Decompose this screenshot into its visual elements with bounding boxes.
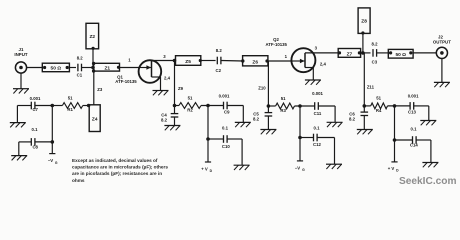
svg-text:C1: C1	[77, 72, 83, 77]
svg-text:51: 51	[281, 96, 286, 101]
wire C10 right to ground	[227, 139, 242, 165]
microstrip line Z6	[243, 56, 269, 66]
wire R3 to node K	[295, 105, 316, 107]
svg-text:0.001: 0.001	[219, 94, 230, 99]
svg-text:8.2: 8.2	[349, 116, 356, 121]
node J (R3 left junction)	[267, 104, 271, 108]
ground (Q1 source)	[153, 91, 169, 96]
wire C3 to R-out	[377, 52, 390, 54]
wire Q1 drain (pin 3) to node B	[152, 54, 176, 61]
resistor R1 51 ohms	[52, 95, 83, 112]
wire Z8 to node D	[362, 33, 364, 53]
svg-text:0.1: 0.1	[222, 125, 229, 130]
transistor Q1 ATF-10135 (GaAs FET)	[115, 60, 161, 84]
node C (Z6 left)	[241, 59, 244, 62]
capacitor C8 0.1uF	[31, 127, 38, 149]
svg-text:0.001: 0.001	[30, 96, 41, 101]
svg-text:Z10: Z10	[258, 86, 266, 91]
microstrip line Z9 (node B down)	[175, 61, 184, 106]
svg-text:Z3: Z3	[97, 87, 103, 92]
capacitor C7 0.001uF	[30, 96, 41, 112]
ground (C12)	[326, 164, 342, 169]
terminal -VG (Q1 gate supply)	[48, 142, 58, 165]
capacitor C6 8.2pF	[349, 106, 368, 130]
microstrip line Z3 (node A down to Z4)	[94, 68, 103, 105]
wire node K down to C12	[299, 106, 301, 138]
capacitor C11 0.001uF	[312, 91, 323, 116]
capacitor C13 0.001uF	[408, 94, 419, 115]
wire C13 right to ground	[414, 106, 429, 121]
svg-text:8.2: 8.2	[216, 48, 223, 53]
terminal -VG (Q2 gate supply)	[295, 138, 305, 172]
microstrip line Z7	[338, 49, 361, 58]
wire Q1 source (pins 2,4) down	[152, 76, 171, 91]
wire Z5 to C2	[201, 60, 216, 62]
capacitor C14 0.1uF	[395, 127, 419, 148]
svg-text:−V: −V	[295, 165, 301, 170]
svg-text:C3: C3	[372, 59, 378, 64]
resistor R4 51 ohms	[364, 96, 387, 113]
svg-text:Z6: Z6	[252, 60, 258, 66]
wire C7 to node E	[35, 105, 53, 107]
node B (Q1 drain junction)	[173, 59, 177, 63]
svg-text:8.2: 8.2	[77, 56, 84, 61]
wire Q2 drain (pin 3) to Z7	[305, 46, 339, 53]
transistor Q2 ATF-10135 (GaAs FET)	[265, 37, 315, 72]
microstrip stub Z2	[86, 23, 99, 50]
svg-text:51: 51	[188, 95, 193, 100]
wire Z6 to Q2 gate / pin 1	[268, 54, 292, 61]
svg-text:+ V: + V	[388, 166, 395, 171]
svg-text:51: 51	[68, 95, 73, 100]
svg-text:2,4: 2,4	[320, 61, 327, 66]
svg-text:51: 51	[376, 96, 381, 101]
ground (C9)	[235, 122, 251, 127]
ground (C7)	[10, 123, 26, 128]
svg-text:C2: C2	[216, 68, 222, 73]
capacitor C12 0.1uF	[300, 126, 322, 148]
microstrip line Z11 (node D down)	[364, 53, 374, 106]
label J1 wire / wire J1 to R-in	[27, 67, 43, 69]
svg-text:G: G	[302, 168, 305, 172]
wire Z2 to node A	[92, 49, 94, 68]
node F (C8 junction)	[51, 140, 55, 144]
svg-text:ATF-10135: ATF-10135	[115, 79, 137, 84]
node L (C12 junction)	[298, 136, 302, 140]
wire C9 right to ground	[227, 106, 243, 123]
svg-text:8.2: 8.2	[161, 117, 168, 122]
svg-text:Z4: Z4	[92, 117, 98, 123]
wire node E down to C8	[51, 106, 53, 142]
wire R4 to node N	[388, 105, 411, 107]
svg-text:Z8: Z8	[361, 19, 367, 25]
svg-text:Z9: Z9	[178, 86, 184, 91]
ground (below J1)	[13, 73, 29, 93]
node O (C14 junction)	[393, 138, 397, 142]
svg-text:INPUT: INPUT	[14, 52, 27, 57]
svg-text:0.1: 0.1	[314, 126, 321, 131]
resistor R3 51 ohms	[268, 96, 294, 113]
ground (C13)	[420, 121, 436, 126]
svg-text:0.1: 0.1	[411, 127, 418, 132]
terminal +VD (Q2 drain supply)	[388, 140, 399, 173]
microstrip stub Z4	[89, 105, 100, 132]
terminal +VD (Q1 drain supply)	[201, 139, 212, 173]
svg-text:8.2: 8.2	[372, 41, 379, 46]
svg-text:SeekIC.com: SeekIC.com	[399, 176, 457, 187]
node A (input junction)	[91, 66, 95, 70]
svg-text:OUTPUT: OUTPUT	[433, 39, 451, 44]
svg-text:C9: C9	[224, 110, 230, 115]
wire C1 to node A	[82, 67, 95, 69]
node I (C10 junction)	[206, 137, 210, 141]
capacitor C3 8.2pF	[372, 41, 379, 64]
node G (R2 left junction)	[173, 104, 177, 108]
wire C8 left to ground	[19, 142, 31, 156]
ground (C4)	[164, 126, 180, 131]
wire node N down to C14	[394, 106, 396, 140]
svg-text:Z5: Z5	[185, 59, 191, 65]
svg-text:0.001: 0.001	[408, 94, 419, 99]
wire C14 right to ground	[416, 140, 431, 163]
node E (R1 left junction)	[51, 104, 55, 108]
ground (below J2)	[434, 82, 450, 87]
connector J1 (input jack)	[14, 47, 27, 73]
svg-text:R1: R1	[67, 107, 73, 112]
ground (C5)	[260, 130, 276, 135]
svg-text:C8: C8	[32, 144, 38, 149]
svg-text:R4: R4	[376, 108, 382, 113]
ground (C8)	[11, 156, 27, 161]
wire Z1 to Q1 gate / pin 1	[120, 58, 141, 68]
svg-text:ATF-10135: ATF-10135	[265, 42, 287, 47]
svg-text:R2: R2	[187, 108, 193, 113]
svg-text:R3: R3	[280, 108, 286, 113]
node D (output junction)	[361, 51, 365, 55]
wire C8 to node F	[35, 141, 53, 143]
svg-text:C12: C12	[313, 142, 321, 147]
ground (C6)	[357, 130, 373, 135]
ground (Q2 source)	[305, 80, 321, 85]
resistor 50-ohm input termination	[42, 63, 69, 71]
wire C12 right to ground	[317, 138, 334, 165]
wire R2 to node H	[201, 105, 224, 107]
capacitor C1 8.2pF	[77, 56, 84, 78]
svg-text:Z7: Z7	[347, 51, 353, 57]
wire R1 to Z4	[83, 104, 91, 107]
capacitor C4 8.2pF	[161, 106, 178, 126]
wire C2 to Z6	[221, 60, 243, 63]
svg-text:Z1: Z1	[104, 65, 110, 71]
svg-text:0.001: 0.001	[312, 91, 323, 96]
svg-text:C7: C7	[32, 107, 38, 112]
wire C11 right to ground	[318, 106, 335, 122]
svg-text:C10: C10	[222, 144, 230, 149]
ground (C11)	[327, 122, 343, 127]
ground (C10)	[234, 165, 250, 170]
capacitor C9 0.001uF	[219, 94, 231, 115]
capacitor C5 8.2pF	[253, 106, 272, 130]
svg-text:Z11: Z11	[367, 85, 375, 90]
wire Q2 source (pins 2,4) down	[305, 61, 326, 80]
resistor R2 51 ohms	[175, 95, 202, 112]
microstrip line Z1	[92, 62, 120, 73]
svg-text:8.2: 8.2	[253, 116, 260, 121]
capacitor C2 8.2pF	[216, 48, 223, 73]
ground (C14)	[422, 163, 438, 168]
wire node D to C3	[363, 52, 371, 54]
node M (R4 left junction)	[363, 104, 367, 108]
svg-text:50 Ω: 50 Ω	[51, 66, 62, 72]
wire R-in to C1	[69, 67, 76, 69]
svg-text:C14: C14	[410, 143, 418, 148]
watermark SeekIC.com	[399, 176, 457, 187]
note text (component value conventions)	[72, 158, 168, 183]
node N (C13 junction)	[393, 104, 397, 108]
svg-text:50 Ω: 50 Ω	[395, 52, 406, 58]
svg-text:−V: −V	[48, 158, 54, 163]
svg-text:C13: C13	[408, 110, 416, 115]
resistor 50-ohm output termination	[388, 49, 413, 58]
wire Z7 to node D	[361, 52, 365, 54]
svg-text:0.1: 0.1	[32, 127, 39, 132]
wire C7 left to ground	[17, 106, 31, 123]
microstrip stub Z8	[358, 8, 370, 35]
capacitor C10 0.1uF	[208, 125, 230, 149]
svg-text:2,4: 2,4	[164, 76, 171, 81]
microstrip line Z10 (node C down)	[258, 61, 268, 106]
svg-text:C11: C11	[314, 111, 322, 116]
wire node H down to C10	[207, 106, 209, 140]
svg-text:Z2: Z2	[89, 34, 95, 40]
wire J2 down to ground	[441, 59, 443, 83]
microstrip line Z5	[176, 56, 202, 66]
svg-text:G: G	[55, 161, 58, 165]
node K (C11 junction)	[298, 104, 302, 108]
wire R-out to J2	[413, 52, 436, 54]
connector J2 (output jack)	[433, 35, 451, 59]
node H (C9 junction)	[206, 104, 210, 108]
svg-text:+ V: + V	[201, 166, 208, 171]
